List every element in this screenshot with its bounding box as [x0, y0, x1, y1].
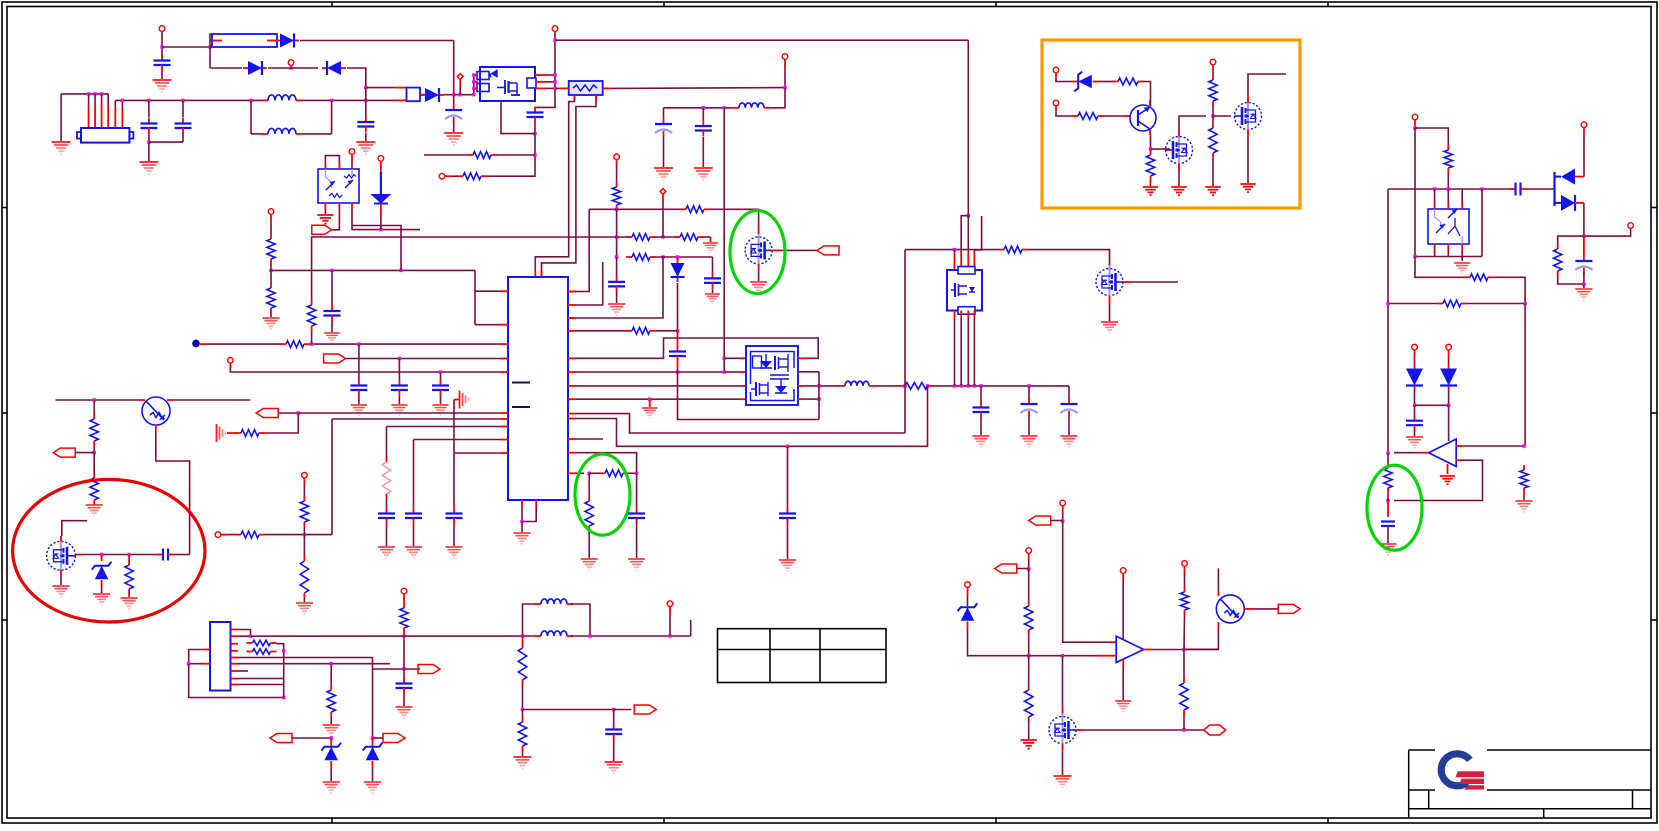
junction — [1433, 187, 1436, 190]
wire row344 east — [310, 343, 500, 345]
wire top rail east — [555, 39, 968, 41]
wire U4 out2 row — [806, 385, 839, 387]
pin P7 — [439, 173, 445, 179]
net flag — [1278, 604, 1300, 613]
wire RC branch — [1558, 236, 1584, 244]
wire P22 down — [303, 484, 305, 496]
junction — [1027, 384, 1030, 387]
wire C8 to ground — [702, 137, 704, 167]
resistor R10 — [585, 496, 593, 531]
junction — [1182, 728, 1185, 731]
wire pin372 row — [576, 371, 724, 373]
pin P20 — [1446, 344, 1452, 350]
ground — [153, 80, 172, 92]
wire rail x555 — [535, 32, 555, 108]
junction — [1061, 519, 1064, 522]
wire P12 jog — [230, 368, 500, 372]
wire P24 down — [1062, 514, 1064, 521]
junction — [402, 667, 405, 670]
wire down to L3 — [770, 88, 785, 108]
transistor Q9 — [1216, 595, 1244, 623]
wire C4-C5 link — [149, 141, 183, 143]
ground — [1406, 437, 1423, 448]
wire J2 pin2 jog — [238, 635, 251, 637]
capacitor C11 — [669, 346, 686, 363]
wire — [546, 81, 555, 83]
resistor R9 — [599, 470, 629, 477]
wire C6 low — [534, 123, 536, 134]
wire R11 to row — [270, 264, 272, 270]
wire P28 down — [1122, 580, 1124, 639]
MOSFET Q1 — [745, 234, 772, 267]
junction — [967, 384, 970, 387]
capacitor C10 — [704, 272, 721, 289]
wire x663 down — [574, 257, 663, 318]
wire row636 east — [571, 635, 691, 637]
wire D4 to junction — [444, 94, 454, 96]
wire C10 to ground — [712, 289, 714, 293]
wire Q1 source east — [780, 249, 817, 251]
wire R20 to base — [1104, 115, 1124, 117]
junction — [926, 384, 929, 387]
resistor R2 — [457, 173, 487, 180]
capacitor C13 — [628, 508, 645, 525]
ground — [972, 436, 989, 447]
ground — [86, 505, 103, 516]
highlight green ellipse 2 — [575, 454, 630, 535]
resistor R21 — [1146, 150, 1154, 181]
capacitor C4 — [140, 118, 157, 135]
diode D11 — [1440, 364, 1457, 391]
wire corner down to bus — [453, 41, 455, 105]
capacitor C18 — [378, 508, 395, 525]
resistor R32 — [125, 560, 133, 594]
ground — [605, 762, 623, 773]
wire flag to row413 — [278, 412, 298, 414]
junction — [1027, 654, 1030, 657]
wire to ground — [521, 522, 523, 533]
ground — [1454, 263, 1470, 273]
junction — [521, 708, 524, 711]
wire Q1 to ground — [758, 270, 760, 281]
wire C21 gnd — [980, 418, 982, 435]
junction — [402, 634, 405, 637]
wire x386 column — [386, 427, 388, 459]
wire row237 — [311, 236, 632, 238]
ground — [779, 560, 796, 571]
wire row655 — [1029, 655, 1098, 657]
ground — [1115, 701, 1131, 711]
wire D2 left lead — [210, 67, 242, 69]
wire flag row — [373, 668, 421, 670]
junction — [648, 398, 651, 401]
capacitor C5 — [175, 118, 192, 135]
ground — [391, 405, 407, 415]
wire pin413 jog — [576, 414, 905, 433]
resistor R22 — [1209, 75, 1217, 106]
resistor R13 — [280, 341, 310, 348]
junction — [1447, 187, 1450, 190]
wire U7 in+ — [1462, 445, 1524, 447]
wire R10 to ground — [588, 531, 590, 558]
wire fuse top corner — [210, 34, 212, 47]
ground — [1379, 544, 1396, 555]
wire C26 gnd — [1414, 431, 1416, 436]
junction — [472, 93, 475, 96]
wire D14 gnd — [372, 768, 374, 781]
junction — [723, 357, 726, 360]
resistor R12 — [267, 283, 275, 313]
wire C28 east — [174, 554, 190, 556]
wire x283 riser — [283, 651, 285, 698]
wire flag link — [75, 452, 94, 454]
junction — [439, 370, 442, 373]
wire C2 to ground — [453, 123, 455, 132]
zener diode D7 — [1074, 72, 1092, 92]
pin P9 — [614, 154, 620, 160]
pin P25 — [1026, 548, 1032, 554]
wire R45 down — [403, 633, 405, 679]
wire J2 pin8 jog — [238, 678, 284, 680]
controller IC U1 — [508, 277, 568, 500]
pin P24 — [1060, 500, 1066, 506]
connector J1 — [77, 128, 133, 143]
ground — [703, 243, 718, 253]
junction — [330, 99, 333, 102]
wire D15 jog — [968, 629, 1029, 656]
inductor L2 loop — [251, 100, 332, 133]
zener diode D15 — [958, 603, 978, 621]
choke ring top — [523, 604, 538, 636]
junction — [87, 92, 90, 95]
wire C11 to row372 — [677, 366, 679, 372]
wire C16 gnd — [398, 396, 400, 404]
junction — [786, 445, 789, 448]
junction — [967, 214, 970, 217]
pin P19 — [1412, 344, 1418, 350]
wire T1 pin jog A — [535, 95, 574, 277]
wire D3 riser crossing — [365, 88, 367, 101]
wire flag link — [291, 737, 331, 739]
zener diode D12 — [92, 562, 112, 580]
wire R12 lead — [270, 270, 272, 283]
ground — [432, 405, 448, 415]
junction — [1027, 567, 1030, 570]
pin P8 — [782, 54, 788, 60]
resistor R8 — [626, 327, 656, 334]
wire C9 to ground — [616, 292, 618, 303]
junction — [903, 384, 906, 387]
wire R16 low — [386, 499, 388, 509]
wire R39 low — [522, 685, 524, 710]
net flag — [817, 246, 839, 255]
transistor Q3 — [1130, 105, 1156, 131]
wire row277 east — [1494, 277, 1525, 303]
transistor Q6 — [142, 397, 170, 425]
ground — [1060, 436, 1077, 447]
diode D8 — [1555, 169, 1584, 185]
resistor R41 — [1025, 601, 1033, 635]
inductor L6 — [535, 631, 573, 636]
pin P18 — [1628, 223, 1634, 229]
pin P26 — [965, 582, 971, 588]
wire to opamp V+ — [1448, 405, 1450, 441]
resistor R1 — [467, 152, 497, 159]
wire corner down — [663, 108, 665, 118]
junction — [303, 533, 306, 536]
wire x454 lower — [453, 453, 455, 509]
junction — [668, 634, 671, 637]
wire Q8 row — [1084, 729, 1204, 731]
wire Q6 row — [56, 399, 140, 401]
junction — [953, 248, 956, 251]
wire U5 v2 — [967, 40, 969, 252]
wire C22 branch — [1028, 386, 1030, 399]
capacitor C1 — [154, 55, 171, 72]
net flag — [1029, 516, 1051, 525]
resistor R4 — [680, 206, 710, 213]
wire P23 down — [669, 613, 671, 636]
junction — [399, 269, 402, 272]
junction — [1523, 302, 1526, 305]
H-bridge module U4 — [746, 346, 798, 405]
wire row155 — [424, 154, 467, 156]
ground — [608, 304, 625, 315]
wire P16 down — [1414, 125, 1416, 128]
wire P27 down — [1184, 574, 1186, 587]
wire R21 gnd — [1150, 181, 1152, 186]
ground — [1240, 184, 1255, 192]
junction — [181, 99, 184, 102]
resistor R29 — [1384, 463, 1392, 493]
junction — [93, 92, 96, 95]
junction — [147, 140, 150, 143]
wire row257 drop — [712, 257, 714, 274]
junction — [1149, 147, 1152, 150]
fuse F2 — [407, 88, 421, 102]
junction — [398, 357, 401, 360]
junction — [1386, 499, 1389, 502]
junction — [472, 87, 475, 90]
junction — [1413, 255, 1416, 258]
wire row473 east — [629, 472, 637, 474]
wire C13 branch — [636, 473, 638, 508]
capacitor C23 polarized — [1061, 398, 1078, 417]
ground — [364, 782, 381, 793]
wire J2 pin5 row — [238, 658, 373, 670]
junction — [472, 73, 475, 76]
wire R29 low — [1387, 493, 1389, 501]
wire x311 riser — [311, 237, 313, 300]
ground — [1440, 476, 1455, 484]
pin P11 — [268, 209, 274, 215]
junction — [289, 66, 292, 69]
resistor R17 — [899, 383, 934, 390]
inductor L2 — [262, 128, 302, 133]
net flag — [270, 734, 292, 743]
wire R40 gnd — [522, 751, 524, 756]
diode D6 — [671, 258, 685, 282]
wire J2 frame — [189, 664, 284, 698]
junction — [553, 80, 556, 83]
wire L3 west — [664, 107, 734, 109]
wire P26 down — [967, 596, 969, 606]
junction — [452, 93, 455, 96]
wire C23 branch — [1068, 386, 1070, 399]
pin P13 — [1053, 67, 1059, 73]
wire R3 to row — [616, 208, 618, 211]
wire P14 jog — [1056, 111, 1072, 116]
pin P4 — [349, 149, 355, 155]
junction — [553, 73, 556, 76]
wire C14 to ground — [331, 321, 333, 332]
wire pin291 jog — [475, 290, 500, 292]
resistor R43 — [1180, 587, 1188, 615]
junction — [702, 106, 705, 109]
wire U6 top1 — [1434, 189, 1436, 203]
wire C15 gnd — [358, 396, 360, 404]
wire R19 to Q3 — [1144, 82, 1151, 101]
wire P8 down — [784, 66, 786, 88]
wire P19 down — [1414, 358, 1416, 364]
wire D3 to corner — [347, 68, 366, 88]
wire jog to R24 — [1415, 128, 1448, 145]
wire pin324 jog — [475, 324, 500, 326]
junction — [1386, 451, 1389, 454]
net flag — [383, 734, 405, 743]
wire U5 pin1 riser — [954, 250, 956, 252]
junction — [364, 99, 367, 102]
wire pin439 stub — [576, 438, 603, 440]
capacitor C15 — [350, 380, 367, 397]
junction — [973, 384, 976, 387]
wire R44 low — [1183, 715, 1185, 730]
junction — [100, 92, 103, 95]
diode D10 — [1406, 364, 1423, 391]
pin P12 — [228, 358, 234, 364]
resistor R44 — [1180, 678, 1188, 715]
wire R42 gnd — [1028, 722, 1030, 739]
resistor R34 — [300, 496, 308, 527]
capacitor C6 — [527, 107, 544, 124]
wire x1415 down — [1414, 128, 1416, 257]
wire U2 to flag — [332, 210, 340, 230]
ground — [1101, 322, 1118, 333]
wire x1062 rail — [1063, 521, 1110, 642]
resistor R3 — [612, 182, 620, 210]
pin P27 — [1182, 561, 1188, 567]
wire x724 stub to U4 — [724, 357, 740, 359]
wire C5 low — [182, 134, 184, 142]
pin P5 — [378, 156, 384, 162]
wire cap branch — [365, 100, 367, 117]
junction — [330, 662, 333, 665]
wire R32 gnd — [128, 594, 130, 597]
junction — [615, 235, 618, 238]
MOSFET module U5 — [947, 267, 982, 315]
ground — [139, 162, 158, 174]
wire Q3 emitter — [1150, 135, 1152, 149]
junction — [661, 255, 664, 258]
wire row473 — [589, 472, 599, 474]
resistor R18 — [998, 246, 1028, 253]
wire C15 branch — [358, 344, 360, 381]
ground — [1143, 187, 1158, 195]
wire U3 left pin column — [473, 75, 475, 95]
MOSFET Q2 — [1096, 266, 1123, 299]
resistor R14 — [307, 300, 315, 331]
wire R35 gnd — [303, 598, 305, 602]
resistor R20 — [1072, 113, 1104, 120]
connector J2 pin stubs — [202, 630, 238, 685]
junction — [661, 235, 664, 238]
wire row385 east — [933, 385, 1069, 387]
inductor L5 — [535, 599, 573, 604]
resistor R27 — [1437, 300, 1467, 307]
wire R36 jog — [277, 644, 284, 651]
ground — [324, 333, 339, 343]
wire Q7 source row — [82, 554, 160, 556]
ground — [1171, 187, 1186, 195]
optocoupler U2 — [318, 169, 359, 203]
wire pin385 row — [576, 385, 740, 387]
wire Q2 to ground — [1109, 303, 1111, 321]
wire bus segment — [454, 94, 474, 96]
pin P29 — [401, 588, 407, 594]
wire x372 column — [372, 669, 374, 738]
junction — [364, 86, 367, 89]
resistor R15 — [235, 430, 265, 437]
capacitor C12 — [779, 508, 796, 525]
wire Q6 emitter path — [156, 430, 190, 555]
pin P22 — [302, 472, 308, 478]
zener diode D14 — [363, 743, 383, 761]
wire to fuse branch — [162, 46, 210, 48]
wire C30 gnd — [403, 694, 405, 706]
resistor R31 — [90, 473, 98, 505]
connector J1 leads — [89, 94, 123, 128]
junction — [297, 411, 300, 414]
wire row249 east — [1028, 250, 1110, 264]
wire C4 branch — [148, 100, 150, 117]
wire C16 branch — [398, 359, 400, 382]
wire R41 low — [1028, 635, 1030, 656]
capacitor C16 — [391, 380, 408, 397]
junction — [723, 370, 726, 373]
junction — [1413, 404, 1416, 407]
resistor R5 — [626, 234, 656, 241]
wire D7 east — [1098, 81, 1114, 83]
net flag — [53, 448, 75, 457]
wire J2 pin1 jog — [238, 630, 251, 637]
junction — [93, 451, 96, 454]
wire D2 to D3 — [268, 67, 318, 69]
resistor R37 — [247, 649, 277, 655]
junction — [520, 520, 523, 523]
wire x1482 riser — [1481, 189, 1483, 257]
resistor R6 — [674, 234, 704, 241]
wire pin399 row — [576, 398, 740, 400]
wire R35 up — [303, 535, 305, 556]
capacitor C9 — [608, 276, 625, 293]
ground — [513, 757, 531, 768]
junction — [817, 384, 820, 387]
table — [718, 629, 887, 683]
capacitor C22 polarized — [1021, 398, 1038, 417]
ground sideways — [460, 391, 469, 409]
wire row189 — [1388, 188, 1510, 190]
net flag — [995, 564, 1017, 573]
